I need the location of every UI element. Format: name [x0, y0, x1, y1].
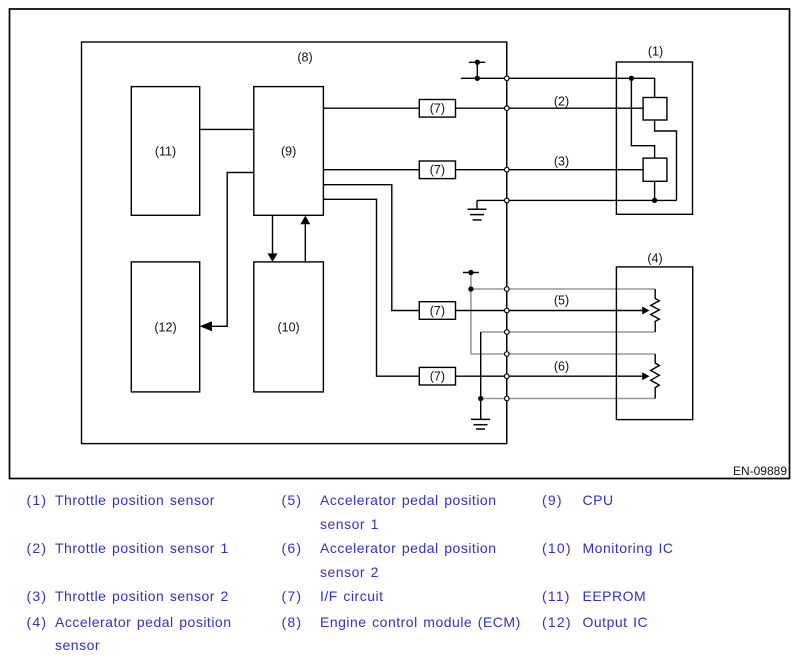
wire U9 to IF box row6 [323, 199, 419, 376]
svg-text:(7): (7) [430, 102, 445, 116]
ground symbol 2 [471, 418, 490, 420]
pin circle signal 6 [505, 374, 510, 379]
element B return wire [654, 181, 656, 200]
gray supply vertical [470, 273, 472, 355]
Monitoring IC box U10 [254, 262, 324, 392]
wire U9 to U10 down [272, 216, 274, 254]
gray return wire resistor1 [481, 331, 656, 333]
pin circle return R1 [505, 330, 510, 335]
resistor R2 leads and zigzag [651, 354, 660, 399]
wire U9 to U12 with arrow [212, 173, 254, 327]
ECM box U8 (Engine control module) [82, 42, 507, 444]
sensor1 wiring to element B [631, 78, 654, 158]
gray supply wire row A [471, 288, 655, 290]
gray supply wire row B [471, 353, 655, 355]
wire 3 [456, 169, 644, 171]
Output IC box U12 [131, 262, 199, 392]
accelerator pedal sensor box U4 [616, 267, 692, 420]
ground wire sensor 1 [477, 199, 677, 201]
svg-text:(12): (12) [154, 320, 176, 334]
I/F circuit box 7a [419, 100, 455, 118]
arrowhead into U10 [268, 253, 278, 262]
junction dot on supply wire [475, 76, 480, 81]
svg-text:(4): (4) [647, 251, 662, 265]
ground symbol 1 [476, 200, 478, 209]
resistor R1 leads and zigzag [651, 289, 660, 332]
svg-text:(3): (3) [554, 155, 569, 169]
I/F circuit box 7b [419, 161, 455, 179]
junction dot sensor1 ground [652, 198, 657, 203]
pin circle supply R2 [505, 352, 510, 357]
black ground vertical [480, 332, 482, 419]
junction dot ground [478, 396, 483, 401]
I/F circuit box 7d [419, 367, 455, 385]
pin circle return R2 [505, 396, 510, 401]
wire U9 to IF box row2 [323, 107, 419, 109]
wire 5 with arrow [456, 310, 643, 312]
pin circle signal 2 [505, 106, 510, 111]
svg-text:(7): (7) [430, 370, 445, 384]
arrowhead into U12 [200, 321, 212, 331]
element A return wire [655, 120, 677, 200]
wire 6 with arrow [456, 375, 643, 377]
power symbol bottom [463, 272, 479, 274]
svg-text:(11): (11) [155, 145, 176, 159]
svg-text:(10): (10) [277, 320, 299, 334]
supply wire to sensor 1 [461, 77, 632, 79]
outer border frame [10, 9, 790, 479]
legend [27, 493, 48, 507]
arrowhead into U9 [300, 216, 310, 225]
EEPROM box U11 [131, 87, 199, 216]
svg-text:(1): (1) [648, 45, 663, 59]
wire 2 [456, 107, 644, 109]
sensor element B (square) [643, 158, 667, 181]
pin circle supply sensor1 [505, 76, 510, 81]
svg-text:EN-09889: EN-09889 [733, 464, 787, 478]
gray return wire resistor2 [481, 398, 656, 400]
pin circle signal 3 [505, 167, 510, 172]
svg-text:(9): (9) [281, 145, 296, 159]
svg-text:(5): (5) [554, 294, 569, 308]
svg-text:(7): (7) [430, 304, 445, 318]
junction dot sensor1 supply [629, 76, 634, 81]
I/F circuit box 7c [419, 302, 455, 320]
sensor element A (square) [643, 98, 667, 121]
wire U9 to IF box row3 [323, 169, 419, 171]
svg-text:(2): (2) [554, 95, 569, 109]
throttle position sensor box U1 [616, 62, 692, 214]
svg-text:(7): (7) [430, 163, 445, 177]
svg-text:(8): (8) [297, 51, 312, 65]
wire U10 to U9 up [304, 224, 306, 262]
pin circle supply R1 [505, 287, 510, 292]
wire U11 to U9 [200, 128, 254, 130]
svg-text:(6): (6) [554, 360, 569, 374]
junction dot supply row5 [468, 286, 473, 291]
pin circle ground sensor1 [505, 198, 510, 203]
junction dot power bar [468, 270, 473, 275]
CPU box U9 [254, 87, 324, 216]
ECM right edge (connector) [506, 42, 508, 444]
wire U9 to IF box row5 [323, 185, 419, 311]
sensor1 wiring to element A [631, 78, 654, 97]
pin circle signal 5 [505, 308, 510, 313]
power symbol top [469, 61, 485, 63]
